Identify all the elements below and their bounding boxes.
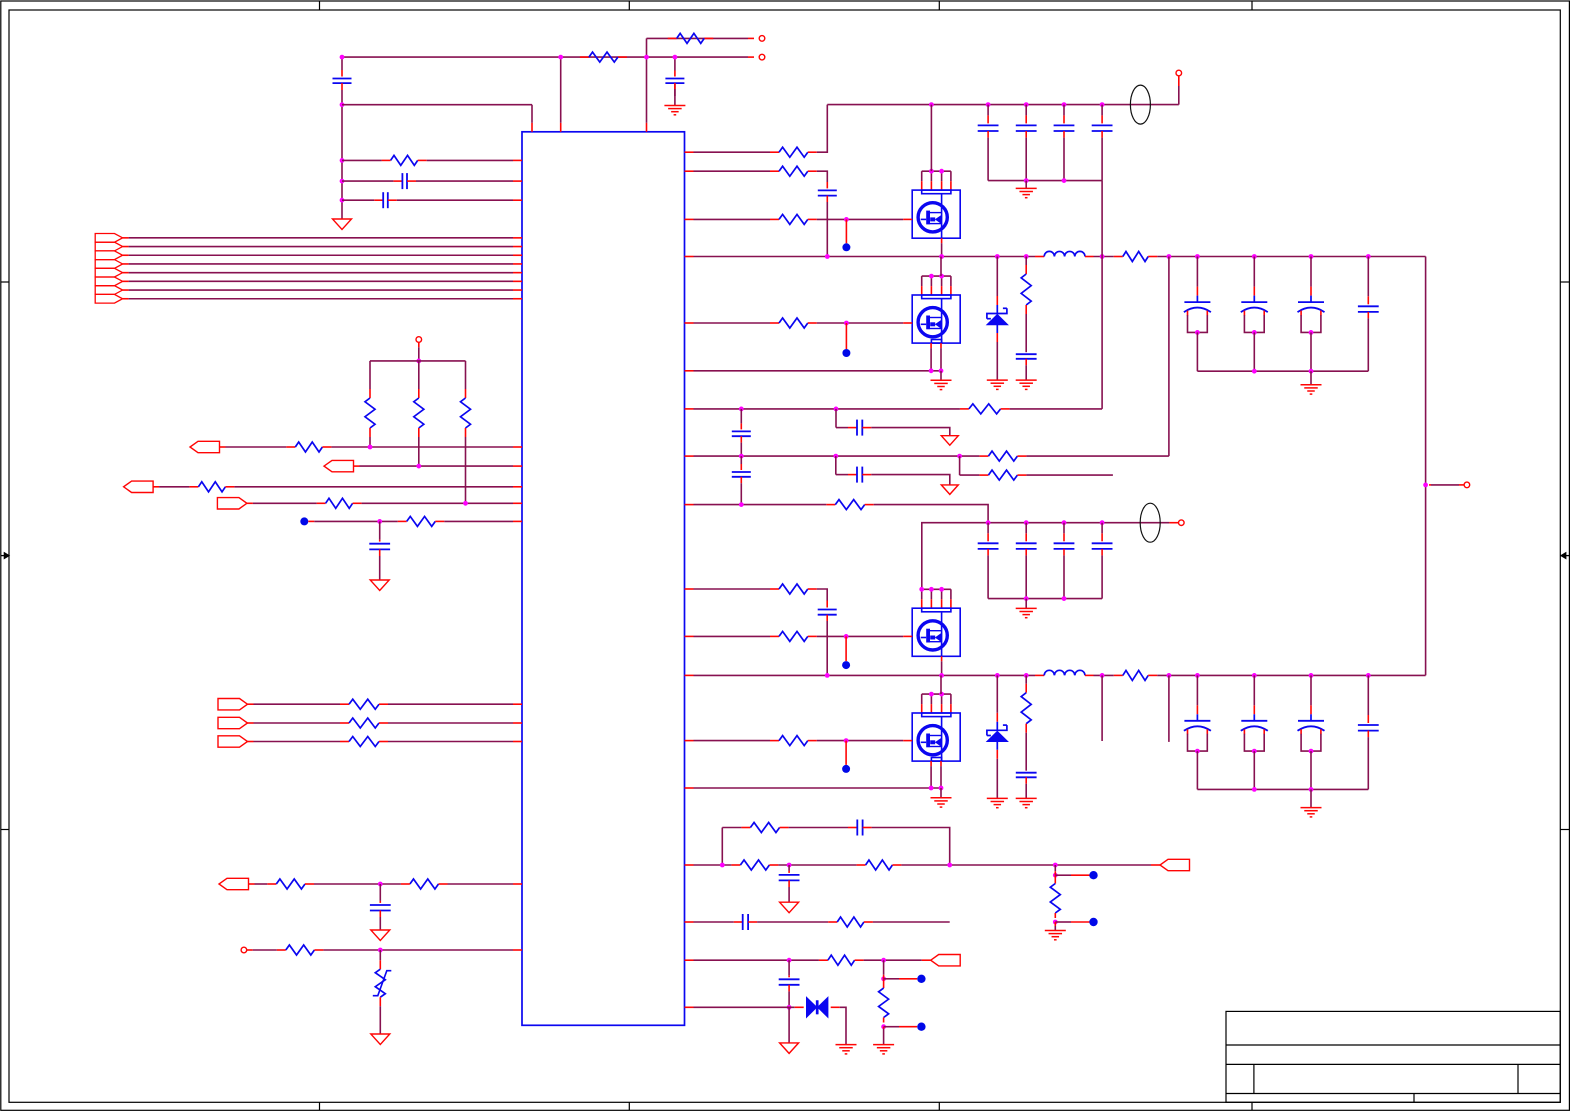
- test point blue dot gate2: [845, 323, 847, 349]
- test point blue dot 1093/875: [1055, 874, 1071, 876]
- capacitor C_789b below y960.2: [788, 975, 790, 977]
- connector tag out y960.2: [931, 955, 961, 966]
- wire row y741.5 with resistor: [248, 741, 254, 743]
- wire bus row 1: [123, 237, 129, 239]
- diode TVS bidirectional: [807, 997, 817, 1017]
- electrolytic bank1 cap E1: [1196, 287, 1198, 296]
- junction 836/408.9: [834, 407, 839, 412]
- wire to output terminal circle: [1429, 484, 1431, 486]
- wire vertical column x342: [341, 57, 343, 70]
- wire vertical x646.5 to IC pin: [646, 123, 648, 132]
- wire row y884: [249, 883, 255, 885]
- wire vertical x560.7 to IC pin: [560, 123, 562, 132]
- test point blue dot gate4: [845, 741, 847, 765]
- junction 835.8/456.1: [833, 454, 838, 459]
- connector tag in row 0 y704.2: [218, 699, 248, 710]
- border center arrow right: [1560, 555, 1569, 557]
- junctions y960.2: [787, 958, 792, 963]
- wire bus row 6: [123, 280, 129, 282]
- wire comp branch y427.6: [835, 409, 837, 428]
- connector tag in y503.3: [217, 498, 247, 509]
- wire bus row 8: [123, 298, 129, 300]
- junction 741.3/456.1: [739, 454, 744, 459]
- wire y104.7 to IC top pin x532: [342, 104, 532, 106]
- capacitor C_vcc at x674.9: [674, 71, 676, 77]
- wire bootstrap2 pin y589: [685, 588, 694, 590]
- ground triangle 789.1/1042.9: [780, 1043, 799, 1054]
- capacitor C below y884: [379, 901, 381, 903]
- wire Q2 sources to y370.8: [930, 343, 932, 348]
- electrolytic bank2 cap E3: [1310, 705, 1312, 714]
- wire hanging sense x1168.9: [1168, 675, 1170, 742]
- junction 342/57: [340, 55, 345, 60]
- title block: [1226, 1011, 1560, 1102]
- wire row y922 cap+res: [685, 921, 694, 923]
- junction 674.9/57: [673, 55, 678, 60]
- junction 380.3/884: [378, 882, 383, 887]
- wire bar y360.9: [370, 360, 466, 362]
- wire Q4 gate row y740.6: [685, 740, 694, 742]
- wire bus row 7: [123, 289, 129, 291]
- inductor L2: [1035, 674, 1044, 676]
- resistor Rv2 x418.8 vertical: [418, 389, 420, 398]
- wire stub row y475.1 dead-end: [959, 456, 961, 475]
- test point blue dot 921.7/978.8: [884, 978, 899, 980]
- junctions on VIN2 rail: [986, 520, 991, 525]
- transistor Q2 low-side MOSFET: [922, 275, 951, 277]
- resistor R_sw2: [1114, 674, 1123, 676]
- capacitor C_741b between 456.1 and 504.6: [740, 464, 742, 470]
- ground triangle 380.3/930: [371, 930, 390, 941]
- resistor R_sw1: [1114, 256, 1123, 258]
- junction 741.3/408.9: [739, 407, 744, 412]
- wire top rail A y57: [748, 56, 754, 58]
- input cap bank 1: C4: [1101, 115, 1103, 123]
- wire output join vertical x1425.6: [1425, 257, 1427, 676]
- ground earth C2_1026: [1016, 797, 1037, 799]
- input cap bank 1: C3: [1063, 115, 1065, 123]
- ground earth input bank 1: [1025, 181, 1027, 189]
- resistor divider x1055.3: [1054, 865, 1056, 871]
- wire vertical x1168.9 from SW1 bus: [1168, 257, 1170, 457]
- wire comp loop top y827.5: [721, 828, 723, 866]
- electrolytic bank2 cap E1: [1196, 705, 1198, 714]
- junctions y865: [720, 863, 725, 868]
- connector tag out y486.8: [124, 481, 154, 492]
- wire to terminal circle 2: [1169, 522, 1178, 524]
- wire input bank 2 bottom bus: [988, 598, 1102, 600]
- ground earth C_1026: [1016, 379, 1037, 381]
- wire SW1 bus y256.5: [685, 256, 694, 258]
- IC left pin row y181.1 with capacitor: [393, 180, 402, 182]
- test point blue dot gate1: [845, 219, 847, 243]
- wire bank1 bottom bus: [1197, 370, 1368, 372]
- connector tag out y447: [190, 441, 220, 452]
- wire SW2 bus y675.4: [685, 674, 694, 676]
- input cap bank 2: C4: [1101, 533, 1103, 541]
- IC left pin row y200.2 with capacitor: [374, 199, 383, 201]
- capacitor C2_1026: [1016, 772, 1037, 774]
- wire to terminal circle 1: [1178, 76, 1180, 86]
- wire comp row y865: [685, 864, 694, 866]
- wire Q3 source: [941, 656, 943, 661]
- capacitor C_boot1: [826, 182, 828, 188]
- junction gate2: [844, 321, 849, 326]
- ground triangle x342: [333, 219, 352, 230]
- electrolytic bank1 cap E2: [1253, 287, 1255, 296]
- wire Q4 sources to y788: [930, 761, 932, 766]
- wire top rail B y38: [646, 38, 648, 57]
- ground earth D1: [987, 379, 1008, 381]
- wire bus row 3: [123, 254, 129, 256]
- junction 380.3/950: [378, 948, 383, 953]
- capacitor C_379 below junction: [379, 540, 381, 542]
- border zone ticks bottom: [319, 1102, 321, 1110]
- wire VIN rail y104.6: [827, 104, 1179, 106]
- connector tag out y466.1: [324, 460, 354, 471]
- input cap bank 2: C2: [1025, 533, 1027, 541]
- wire FB row y456.1: [685, 455, 694, 457]
- wire Q1 source: [941, 238, 943, 243]
- wire row y447: [220, 446, 226, 448]
- junction 646.5/57: [644, 55, 649, 60]
- inductor ferrite ellipse terminal 2: [1140, 503, 1160, 542]
- ground triangle 380.3/1034: [371, 1034, 390, 1045]
- ground earth input bank 2: [1025, 599, 1027, 609]
- capacitor C_x342: [333, 78, 352, 80]
- ground triangle 789.1/902: [780, 902, 799, 913]
- junction 370/447: [368, 445, 373, 450]
- wire bank2 bottom bus: [1197, 788, 1368, 790]
- wire Q2 gate row y323: [685, 322, 694, 324]
- junction 465.5/503.3: [463, 501, 468, 506]
- junction 342/200.2: [340, 198, 345, 203]
- input cap bank 2: C3: [1063, 533, 1065, 541]
- ceramic cap bank2 x1368.3: [1367, 715, 1369, 723]
- test point blue dot 1093/922: [1055, 921, 1071, 923]
- wire FB1 row y408.9: [685, 408, 694, 410]
- junction 342/104.7: [340, 102, 345, 107]
- ground earth 1055.3: [1045, 930, 1066, 932]
- wire row y503.3: [247, 502, 253, 504]
- junctions on SW1 bus: [825, 254, 830, 259]
- wire row y521.4: [308, 520, 314, 522]
- junction 342/181.1: [340, 179, 345, 184]
- resistor R_topB body: [668, 37, 677, 39]
- connector tag out y865: [1160, 859, 1190, 870]
- wire row y1007.3 TVS: [685, 1006, 694, 1008]
- varistor RV at 380.3: [379, 960, 381, 969]
- wire bus row 2: [123, 246, 129, 248]
- wire row y950: [247, 949, 253, 951]
- resistor R_topA body: [580, 56, 589, 58]
- capacitor C_boot2: [826, 601, 828, 608]
- ground earth D2: [987, 797, 1008, 799]
- capacitor C_1026: [1016, 353, 1037, 355]
- ground earth bank1: [1310, 371, 1312, 385]
- ceramic cap bank1 x1368.3: [1367, 296, 1369, 304]
- resistor Rv1 x370 vertical: [369, 389, 371, 398]
- resistor R2_1026 vertical: [1025, 684, 1027, 693]
- ground triangle comp2: [941, 485, 958, 495]
- wire VIN2 pin row y504.6: [685, 504, 694, 506]
- wire hanging sense x1102.1: [1101, 675, 1103, 741]
- wire vertical x1102.1 (bank1 gnd bus to FB): [1101, 181, 1103, 409]
- wire VIN2 rail y522.7: [922, 523, 1170, 589]
- transistor Q3 high-side MOSFET: [922, 588, 951, 590]
- junction 560.7/57: [558, 55, 563, 60]
- wire Q3 gate row y636.4: [685, 635, 694, 637]
- connector tag out y884: [219, 878, 249, 889]
- resistor Rv3 x465.5 vertical: [465, 389, 467, 398]
- wire row y960.2: [685, 959, 694, 961]
- resistor divider x883.6: [883, 960, 885, 975]
- node open terminal x418.8: [416, 337, 422, 343]
- node open terminal y950: [241, 947, 247, 953]
- inductor L1: [1035, 256, 1044, 258]
- ground triangle comp1: [941, 436, 958, 446]
- ground earth 883.6: [873, 1044, 894, 1046]
- test point blue dot gate3: [845, 636, 847, 661]
- junction 418.8/360.9: [416, 359, 421, 364]
- wire bootstrap pin y171.2: [685, 170, 694, 172]
- electrolytic bank1 cap E3: [1310, 287, 1312, 296]
- ground triangle 379.7: [370, 580, 389, 591]
- test point blue dot 921.4/1026.7: [884, 1026, 899, 1028]
- ground earth Q4: [940, 788, 942, 798]
- IC pin row y152.2 to VIN rail: [685, 151, 694, 153]
- junction 959.6/456.1: [957, 454, 962, 459]
- inductor ferrite ellipse terminal 1: [1130, 85, 1150, 124]
- electrolytic bank2 cap E2: [1253, 705, 1255, 714]
- node open terminal B: [759, 36, 765, 42]
- wire row y723 with resistor: [248, 722, 254, 724]
- capacitor C_789 below y865: [788, 871, 790, 873]
- junction 418.8/466.1: [416, 464, 421, 469]
- diode D2 zener: [996, 713, 998, 722]
- op-amp U1 main controller IC body: [522, 132, 685, 1026]
- wire bus row 5: [123, 272, 129, 274]
- wire Q1 drain feed: [930, 105, 932, 172]
- ground earth bank2: [1310, 789, 1312, 807]
- wire IC pin row y370.8 (pgnd sense): [685, 370, 694, 372]
- junctions on SW2 bus: [825, 673, 830, 678]
- capacitor C_741a between 408.9 and 456.1: [740, 423, 742, 429]
- border zone ticks right: [1560, 281, 1569, 283]
- ground earth 846: [836, 1044, 857, 1046]
- connector tag in row 1 y723: [218, 717, 248, 728]
- input cap bank 1: C1: [987, 115, 989, 123]
- wire bus row 4: [123, 263, 129, 265]
- wire Q1 gate row y219.4: [685, 218, 694, 220]
- ground earth at 674.9: [674, 89, 676, 106]
- transistor Q4 low-side MOSFET: [922, 693, 951, 695]
- input cap bank 2: C1: [987, 533, 989, 541]
- junction gate1: [844, 217, 849, 222]
- test point blue dot y521.4: [300, 517, 308, 525]
- ground earth Q2: [940, 371, 942, 381]
- wire row y466.1: [354, 465, 360, 467]
- junction gate4: [844, 738, 849, 743]
- wire Q4 drain feed: [940, 675, 942, 694]
- junction 741.3/504.6: [739, 502, 744, 507]
- transistor Q1 high-side MOSFET: [922, 170, 951, 172]
- wire row y704.2 with resistor: [248, 703, 254, 705]
- diode D1 zener at 998: [996, 296, 998, 305]
- connector tag in row 2 y741.5: [218, 736, 248, 747]
- junction 342/160.4: [340, 158, 345, 163]
- border zone ticks left: [1, 281, 9, 283]
- wire input bank 1 bottom bus: [988, 180, 1102, 182]
- wire comp branch y474.6: [835, 456, 837, 475]
- wire Q2 drain feed: [940, 257, 942, 277]
- wire IC pin row y788 (pgnd2 sense): [685, 787, 694, 789]
- input cap bank 1: C2: [1025, 115, 1027, 123]
- bus connector stack 8 signal tags: [95, 234, 122, 243]
- border zone ticks top: [319, 1, 321, 10]
- node open terminal A: [759, 54, 765, 60]
- border center arrow left: [1, 555, 9, 557]
- junctions on VIN rail: [929, 102, 934, 107]
- junction output terminal: [1423, 483, 1428, 488]
- junction gate3: [844, 634, 849, 639]
- junction 379.7/521.4: [377, 519, 382, 524]
- wire row y486.8: [153, 486, 159, 488]
- IC left pin row y160.4 with resistor: [382, 159, 391, 161]
- resistor R_1026 vertical: [1025, 265, 1027, 274]
